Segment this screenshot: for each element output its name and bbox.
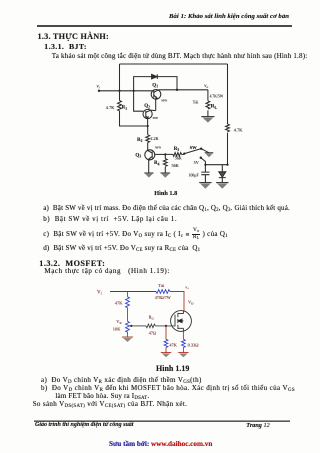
resistor RL — [206, 101, 210, 109]
header title — [169, 14, 289, 21]
footer rule — [34, 420, 290, 423]
wire pot to ground — [127, 332, 129, 337]
ground below R4 — [161, 173, 171, 178]
caption Hinh 1.19 — [156, 365, 189, 373]
bottom credit — [109, 441, 212, 448]
svg-text:470Ω/7W: 470Ω/7W — [155, 295, 171, 300]
node SW lower contact — [200, 157, 202, 159]
wire RL branch — [207, 90, 209, 117]
junction battery node — [204, 164, 206, 166]
wire Vi top rail — [110, 291, 156, 293]
resistor R4 — [163, 159, 167, 167]
svg-text:VR: VR — [116, 319, 122, 325]
ground below 47K lower — [161, 353, 171, 358]
wire top rail — [120, 63, 228, 65]
section 1.3.2 — [39, 260, 105, 268]
resistor RG 47 ohm — [146, 324, 155, 328]
svg-text:RG: RG — [149, 315, 155, 321]
ground below capacitor — [199, 183, 211, 189]
wire 0.33 to ground — [182, 347, 184, 352]
svg-text:10K: 10K — [113, 326, 121, 331]
resistor 4.7K right rail — [226, 124, 230, 132]
wire SW lower contact to node — [201, 158, 206, 165]
node vi terminal — [98, 90, 100, 92]
switch SW lever — [184, 149, 201, 154]
svg-text:v+: v+ — [185, 285, 189, 291]
wire mosfet source down — [182, 331, 184, 339]
diode D1 — [152, 74, 158, 79]
junction vo left — [176, 89, 178, 91]
paragraph 2 — [44, 268, 170, 275]
junction R4 top — [164, 153, 166, 155]
wire Q1 collector to vo — [158, 89, 208, 91]
wire load to corner — [170, 292, 184, 311]
svg-text:47K: 47K — [115, 300, 123, 305]
list d — [43, 245, 200, 252]
wire right rail — [227, 64, 229, 165]
resistor 470 ohm load — [156, 290, 170, 294]
node SW upper contact — [200, 148, 202, 150]
resistor 0.33 ohm — [181, 339, 185, 347]
list 2b line2 — [55, 393, 149, 400]
svg-text:Tải: Tải — [158, 283, 165, 288]
junction R2 top — [147, 125, 149, 127]
wire input vi line — [99, 90, 154, 92]
wire wiper to RG — [131, 325, 146, 327]
junction R1 top — [118, 90, 120, 92]
closing sentence — [33, 401, 188, 408]
wire between 47K and pot — [127, 308, 129, 322]
footer page number — [246, 423, 269, 429]
potentiometer wiper arrow — [130, 325, 132, 327]
diode D2 to ground — [219, 165, 226, 183]
svg-text:VD: VD — [188, 300, 194, 306]
ground below 0.33 — [178, 353, 188, 358]
footer left — [35, 422, 133, 428]
paragraph — [52, 53, 308, 60]
wire left drop to input node — [119, 64, 121, 91]
list 2b line1 — [41, 385, 295, 392]
capacitor C1 100uF — [201, 165, 209, 183]
ground below pot — [122, 337, 133, 342]
mosfet M1 — [171, 311, 192, 332]
svg-text:0.33Ω: 0.33Ω — [188, 343, 200, 348]
transistor Q1 — [151, 90, 161, 111]
resistor R2 — [146, 135, 150, 143]
ground below RL — [201, 117, 214, 123]
junction wiper dot — [130, 325, 132, 327]
list 2a — [41, 377, 202, 384]
section 1.3.1 — [44, 43, 87, 51]
svg-text:47K: 47K — [169, 343, 177, 348]
wire R2 branch — [120, 126, 148, 151]
wire node to right rail — [205, 164, 227, 166]
junction diode branch — [133, 90, 135, 92]
wire 47K lower branch — [165, 326, 167, 339]
ground below diode D2 — [216, 183, 228, 189]
wire Q2 base drop — [134, 91, 144, 111]
list a — [43, 205, 290, 212]
list b — [43, 216, 177, 223]
resistor R3 — [165, 153, 184, 157]
resistor 47K upper left — [126, 297, 130, 308]
junction gate 47K dot — [165, 325, 167, 327]
caption Hinh 1.8 — [154, 191, 177, 197]
wire left branch top — [127, 292, 129, 297]
wire SW upper contact to ground — [201, 149, 209, 153]
transistor Q3 — [145, 150, 166, 173]
wire 47K to ground — [165, 347, 167, 352]
svg-text:Vi: Vi — [97, 290, 102, 295]
section 1.3 — [38, 33, 110, 41]
potentiometer 10K — [126, 321, 130, 332]
svg-text:47Ω: 47Ω — [149, 330, 156, 335]
wire diode branch up — [134, 77, 177, 91]
resistor R1 — [118, 101, 122, 111]
junction right rail bottom — [226, 164, 228, 166]
header rule — [37, 25, 292, 27]
wire R4 branch — [164, 154, 166, 173]
ground below Q3 — [144, 173, 153, 178]
transistor Q2 — [143, 109, 156, 126]
junction SW pivot — [183, 153, 185, 155]
ground at SW upper contact — [205, 153, 214, 157]
wire R1 branch — [120, 91, 148, 126]
list c — [43, 228, 228, 240]
wire RG to gate — [155, 325, 174, 327]
resistor 47K lower — [164, 339, 168, 347]
